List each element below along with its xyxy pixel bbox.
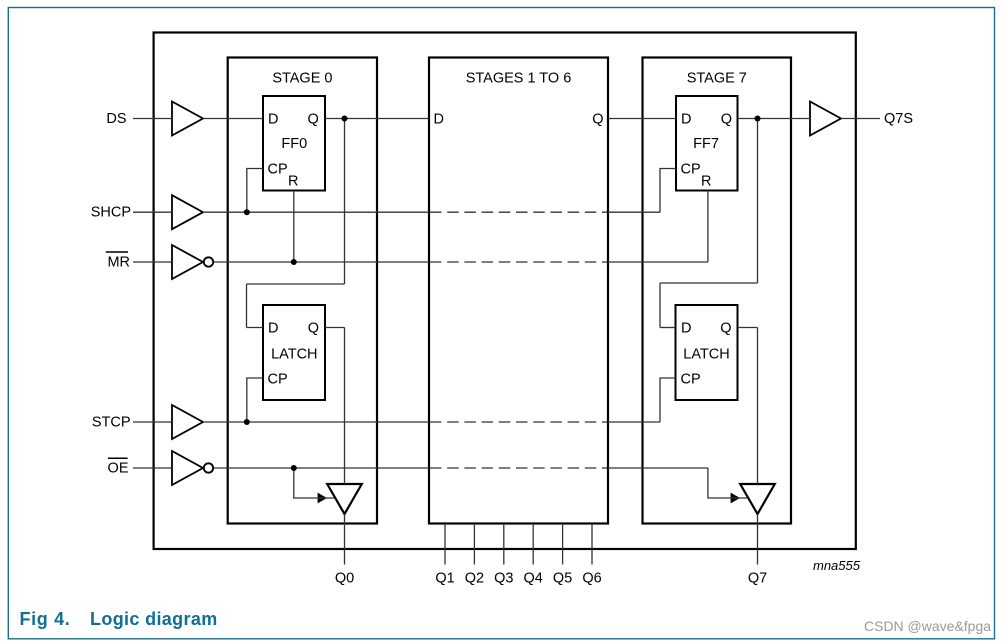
junction FF0 Q node [342, 116, 348, 122]
wire STCP right of stages box [608, 421, 660, 423]
flip-flop FF0 [263, 96, 325, 191]
input buffer (DS) [172, 102, 203, 136]
wire FF0 Q down [344, 119, 346, 285]
figure caption [20, 609, 218, 629]
inverting input buffer (OE) [172, 451, 213, 485]
svg-text:Q: Q [308, 112, 319, 128]
wire STCP dashed through stages 1 to 6 [430, 421, 607, 423]
wire Q4 output [532, 524, 534, 565]
wire FF7 Q to output buffer [738, 118, 811, 120]
svg-text:DS: DS [106, 111, 126, 127]
wire STCP up to LATCH0 CP [247, 378, 263, 422]
svg-text:Logic diagram: Logic diagram [90, 609, 218, 629]
three-state output buffer (Q0) [327, 484, 362, 514]
input buffer (STCP) [172, 405, 203, 439]
svg-text:R: R [701, 174, 711, 190]
junction MR node [291, 259, 297, 265]
wire MR up to FF0 R [293, 191, 295, 263]
wire STCP buffer to stages box [203, 421, 429, 423]
svg-text:Q4: Q4 [524, 571, 543, 587]
svg-text:D: D [681, 112, 691, 128]
svg-text:Q: Q [308, 321, 319, 337]
svg-text:Q5: Q5 [553, 571, 572, 587]
wire OE label to buffer [133, 467, 172, 469]
wire down to LATCH7 D [659, 283, 661, 328]
junction SHCP node [244, 209, 250, 215]
svg-text:Q6: Q6 [582, 571, 601, 587]
svg-text:D: D [681, 321, 691, 337]
wire LATCH7 Q down to buffer [757, 328, 759, 485]
wire Q2 output [473, 524, 475, 565]
svg-text:R: R [288, 174, 298, 190]
input buffer (SHCP) [172, 195, 203, 229]
svg-text:FF0: FF0 [281, 136, 307, 152]
stage 7 box [643, 58, 792, 524]
svg-text:FF7: FF7 [693, 136, 719, 152]
inverting input buffer (MR) [172, 245, 213, 279]
wire SHCP up to FF0 CP [247, 169, 263, 213]
svg-text:Q: Q [592, 112, 603, 128]
svg-text:D: D [434, 112, 444, 128]
svg-text:CP: CP [268, 372, 288, 388]
wire down to LATCH0 D [246, 284, 248, 328]
svg-text:LATCH: LATCH [271, 347, 317, 363]
wire into LATCH7 D [660, 327, 676, 329]
svg-text:Fig 4.: Fig 4. [20, 609, 71, 629]
wire MR up to FF7 R [707, 191, 709, 263]
wire OE dashed through stages 1 to 6 [430, 467, 607, 469]
svg-text:Q2: Q2 [465, 571, 484, 587]
wire SHCP label to buffer [133, 211, 172, 213]
enable arrowhead (Q0 buffer) [318, 493, 327, 504]
wire Q1 output [444, 524, 446, 565]
svg-text:Q3: Q3 [494, 571, 513, 587]
svg-text:Q: Q [720, 321, 731, 337]
wire DS label to buffer [133, 118, 172, 120]
wire MR buffer to stages box [214, 261, 430, 263]
stages 1 to 6 box [429, 58, 608, 524]
wire Q5 output [562, 524, 564, 565]
wire LATCH0 Q out [325, 327, 345, 329]
wire FF7 Q across [660, 282, 758, 284]
svg-text:CSDN @wave&fpga: CSDN @wave&fpga [864, 618, 991, 634]
wire SHCP up to FF7 CP [660, 169, 676, 213]
svg-text:OE: OE [108, 460, 129, 476]
latch LATCH7 [676, 305, 738, 400]
svg-text:SHCP: SHCP [91, 204, 131, 220]
svg-text:Q1: Q1 [435, 571, 454, 587]
wire Q0 output [344, 514, 346, 565]
wire SHCP right of stages box [608, 211, 660, 213]
wire OE buffer to stages box [214, 467, 430, 469]
wire Q7 output [757, 514, 759, 565]
wire FF0 Q to stages 1 to 6 D [325, 118, 429, 120]
wire OE right of stages box [608, 467, 708, 469]
wire FF7 Q down [757, 119, 759, 284]
output buffer (Q7S) [810, 102, 841, 136]
svg-text:CP: CP [681, 162, 701, 178]
wire OE down to Q0 buffer enable [294, 468, 334, 498]
wire Q3 output [503, 524, 505, 565]
svg-text:Q7: Q7 [748, 571, 767, 587]
wire LATCH7 Q out [738, 327, 758, 329]
svg-text:MR: MR [107, 254, 130, 270]
svg-text:Q0: Q0 [335, 571, 354, 587]
wire MR label to buffer [133, 261, 172, 263]
wire SHCP dashed through stages 1 to 6 [430, 211, 607, 213]
wire DS buffer to FF0 D [203, 118, 263, 120]
svg-text:LATCH: LATCH [683, 347, 729, 363]
svg-text:Q: Q [721, 112, 732, 128]
wire stages Q to FF7 D [608, 118, 676, 120]
svg-text:mna555: mna555 [813, 558, 861, 573]
wire LATCH0 Q down to buffer [344, 328, 346, 485]
svg-text:D: D [268, 321, 278, 337]
svg-text:CP: CP [268, 162, 288, 178]
svg-text:Q7S: Q7S [884, 111, 913, 127]
wire FF0 Q across [247, 283, 345, 285]
svg-text:STAGES 1 TO 6: STAGES 1 TO 6 [466, 70, 572, 86]
wire Q6 output [591, 524, 593, 565]
wire Q7S output [841, 118, 880, 120]
svg-text:D: D [268, 112, 278, 128]
stage 0 box [228, 58, 377, 524]
svg-text:STAGE 7: STAGE 7 [687, 70, 747, 86]
junction OE node [291, 465, 297, 471]
wire MR right of stages box [608, 261, 708, 263]
wire MR dashed through stages 1 to 6 [430, 261, 607, 263]
junction STCP node [244, 419, 250, 425]
enable arrowhead (Q7 buffer) [731, 493, 740, 504]
svg-text:STCP: STCP [92, 414, 131, 430]
wire SHCP buffer to stages box [203, 211, 429, 213]
wire into LATCH0 D [247, 327, 264, 329]
junction FF7 Q node [755, 116, 761, 122]
net label MR (active low) [106, 252, 130, 270]
wire STCP up to LATCH7 CP [660, 378, 676, 422]
wire OE down to Q7 buffer enable [708, 468, 748, 498]
three-state output buffer (Q7) [740, 484, 775, 514]
flip-flop FF7 [676, 96, 738, 191]
latch LATCH0 [263, 305, 325, 400]
wire STCP label to buffer [133, 421, 172, 423]
svg-text:STAGE 0: STAGE 0 [272, 70, 332, 86]
outer logic diagram box [154, 33, 856, 550]
net label OE (active low) [108, 458, 129, 476]
svg-text:CP: CP [681, 372, 701, 388]
